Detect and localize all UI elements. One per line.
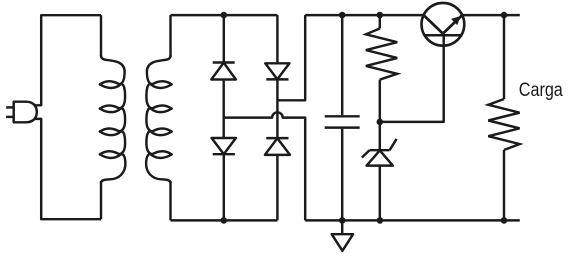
svg-text:Carga: Carga [519,80,563,101]
